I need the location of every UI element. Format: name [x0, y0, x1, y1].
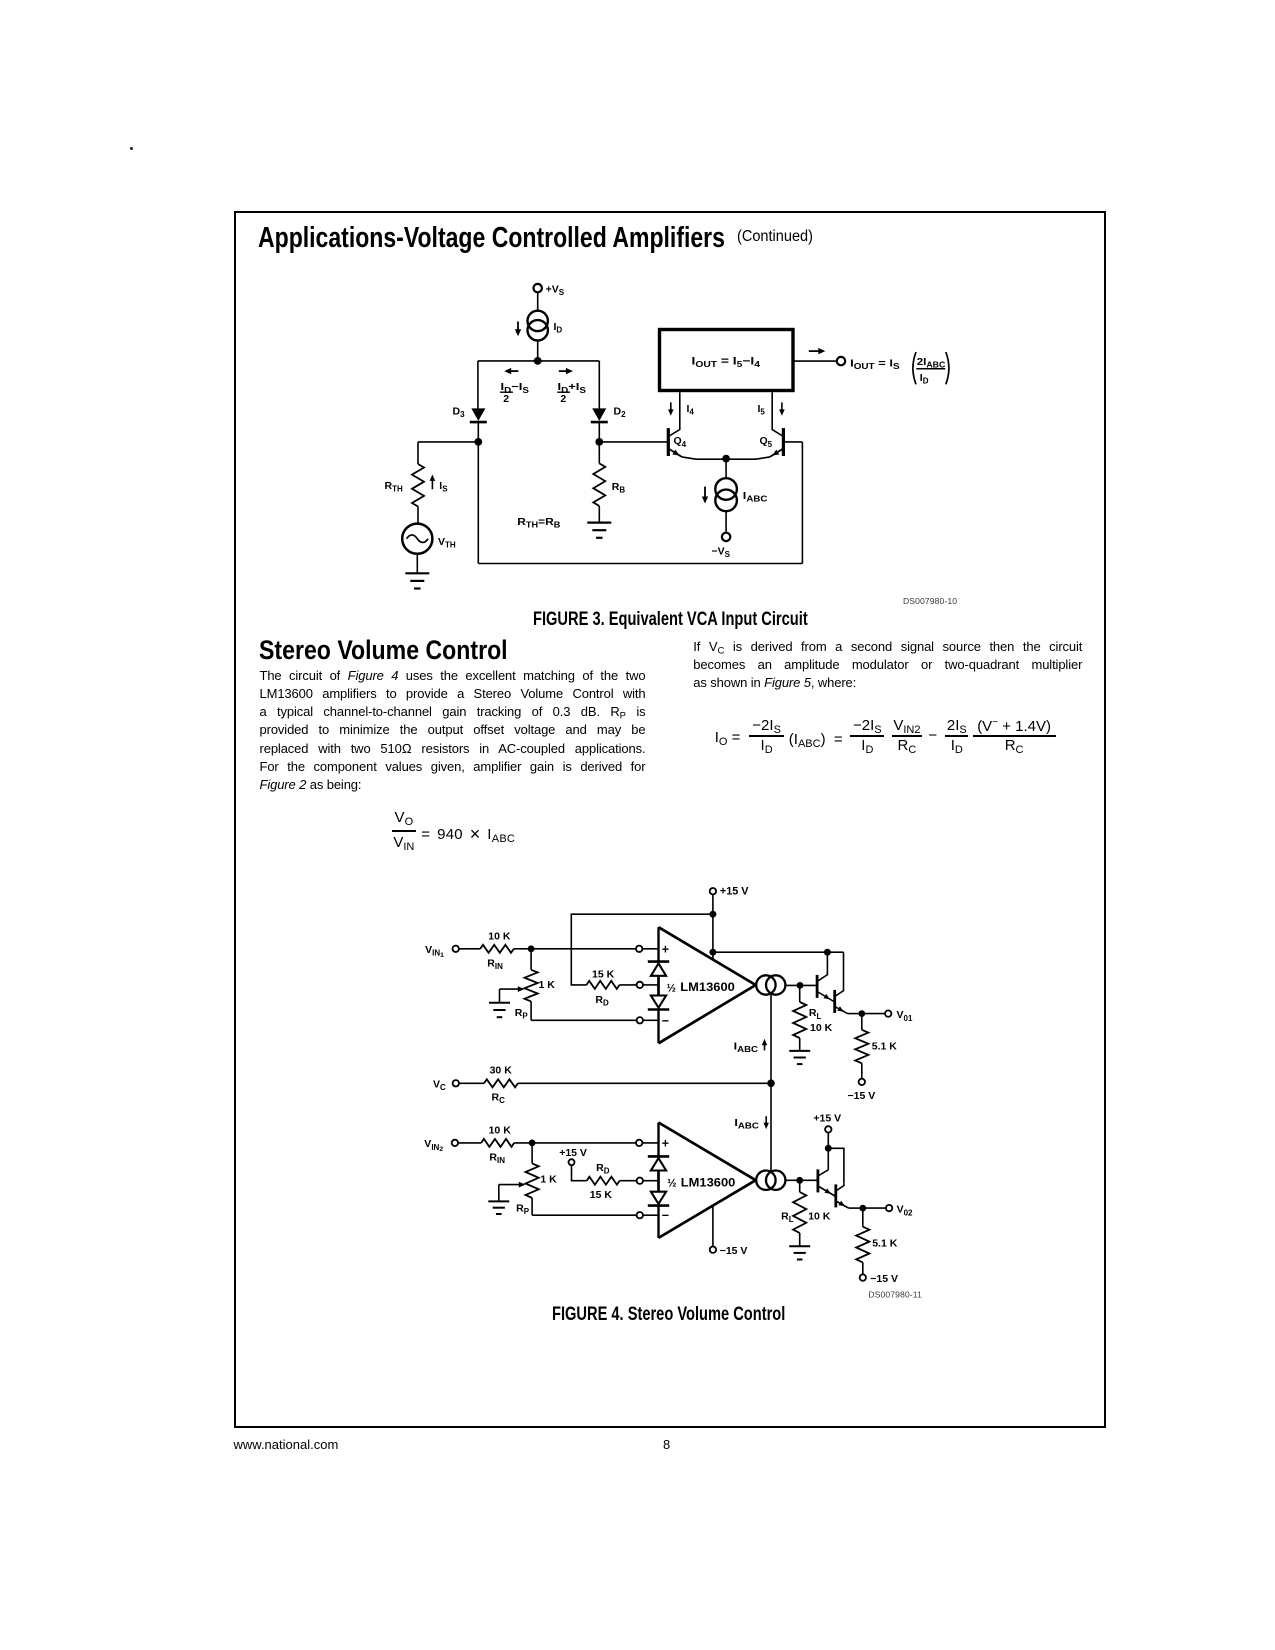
wire +15V down ch2 [827, 1133, 829, 1170]
svg-text:VTH: VTH [438, 536, 456, 550]
svg-text:Q4: Q4 [674, 435, 687, 449]
label 10 K (RL ch2) [808, 1211, 831, 1223]
output block IOUT = I5-I4 [660, 330, 794, 391]
wire ID to node [537, 341, 539, 361]
terminal - input A1 [637, 1017, 643, 1023]
wire node A to RTH [418, 442, 478, 464]
label V01 [897, 1009, 913, 1023]
wire diode mid node [657, 976, 660, 996]
wire rail to RD [571, 914, 713, 985]
label ID [554, 321, 563, 335]
label RD ch2 [596, 1162, 610, 1176]
wire block output [793, 360, 837, 362]
wire rail down to Q2 collector [843, 952, 845, 988]
wire diode mid node ch2 [657, 1171, 660, 1192]
diode D2b (linearizing) [648, 1192, 669, 1206]
label + input A1 [662, 942, 669, 956]
diode D1a (linearizing) [648, 962, 669, 976]
ground (RL ch2) [789, 1246, 810, 1259]
wire A2 output to Q3 base [785, 1179, 818, 1181]
label RTH [385, 480, 403, 494]
label RIN ch2 [489, 1152, 505, 1166]
terminal -15V ch1 [859, 1079, 865, 1085]
svg-text:5.1 K: 5.1 K [872, 1040, 898, 1052]
node A2 output [796, 1177, 803, 1184]
resistor RIN (10 K) channel 2 [481, 1139, 514, 1147]
terminal VC [453, 1080, 459, 1086]
node A1 output [797, 982, 804, 989]
label 15 K (RD ch1) [592, 969, 615, 981]
arrow right branch current [559, 368, 573, 374]
node C (emitters) [722, 455, 730, 463]
svg-text:RIN: RIN [489, 1152, 505, 1166]
wire to V01 terminal [862, 1013, 885, 1015]
wire + input to amp A2 [642, 1142, 658, 1144]
wire - input to amp [643, 1019, 659, 1021]
svg-text:1 K: 1 K [540, 1173, 557, 1185]
wire + input to amp [642, 948, 658, 950]
svg-text:VIN1: VIN1 [425, 944, 444, 959]
wire VIN1 to RIN [459, 948, 480, 950]
svg-text:+VS: +VS [546, 284, 565, 298]
current source ID [528, 311, 548, 341]
terminal diode bias input A1 [637, 982, 643, 988]
label 1/2 LM13600 (A2) [667, 1175, 735, 1189]
svg-text:D3: D3 [453, 405, 466, 419]
label IOUT = IS [850, 357, 900, 371]
resistor RIN (10 K) channel 1 [480, 945, 514, 953]
potentiometer RP (1 K) channel 1 [525, 949, 538, 1021]
terminal VIN1 [453, 946, 459, 952]
label 10 K (RIN ch2) [489, 1125, 512, 1137]
junction +15V ch2 [825, 1145, 832, 1152]
label I4 [687, 403, 695, 417]
svg-text:−: − [662, 1209, 669, 1223]
arrow I5 [779, 402, 785, 415]
source VTH [402, 524, 432, 554]
wire A1 output to Q1 base [785, 984, 817, 986]
label D2 [614, 405, 627, 419]
wire RC to IABC node [518, 1082, 771, 1084]
svg-text:RIN: RIN [487, 957, 503, 971]
svg-text:D2: D2 [614, 405, 627, 419]
label 5.1 K ch1 [872, 1040, 898, 1052]
label IABC ch1 [734, 1040, 759, 1054]
op-amp A2 (1/2 LM13600) [659, 1123, 756, 1238]
parenthesis left [913, 352, 916, 384]
terminal V02 [886, 1205, 892, 1211]
ground (RP wiper ch2) [488, 1201, 509, 1214]
wire 5.1K to -15V ch2 [862, 1262, 864, 1274]
svg-text:RTH=RB: RTH=RB [517, 516, 560, 530]
svg-text:I5: I5 [758, 403, 766, 417]
arrow I4 [668, 402, 674, 415]
wire bottom rail [478, 563, 802, 565]
diode D2 [591, 408, 608, 442]
ground (RL ch1) [789, 1051, 810, 1064]
FIGURE 4 schematic [420, 882, 922, 1302]
wire IABC channel 1 [770, 995, 772, 1084]
svg-text:V01: V01 [897, 1009, 913, 1023]
label + input A2 [662, 1136, 669, 1150]
wiper arrow RP ch2 [499, 1182, 526, 1202]
terminal + input A2 [636, 1140, 642, 1146]
wire RIN to + input ch2 [514, 1142, 636, 1144]
resistor RD (15 K) channel 1 [587, 981, 620, 989]
svg-text:15 K: 15 K [590, 1189, 613, 1201]
svg-text:+15 V: +15 V [720, 886, 749, 898]
label 1 K (RP ch1) [539, 979, 556, 991]
arrow output current [809, 348, 826, 354]
wiper arrow RP ch1 [500, 986, 525, 1003]
svg-text:30 K: 30 K [490, 1065, 513, 1077]
wire RD to bias input ch2 [620, 1180, 637, 1182]
wire node A down [477, 442, 479, 564]
resistor 5.1 K channel 2 [856, 1227, 869, 1263]
wire to V02 terminal [863, 1207, 886, 1209]
wire -15V supply pin A2 [712, 1205, 714, 1246]
label D3 [453, 405, 466, 419]
label (ID-IS)/2 [500, 381, 530, 405]
section title [258, 222, 846, 252]
label VTH [438, 536, 456, 550]
resistor RL (10 K) channel 1 [793, 1002, 806, 1038]
wire - input to amp A2 [643, 1214, 659, 1216]
terminal + input A1 [636, 946, 642, 952]
terminal V01 [885, 1010, 891, 1016]
label RP ch2 [516, 1202, 530, 1216]
wire bias to diodes ch2 [643, 1180, 659, 1182]
label RC [492, 1091, 506, 1105]
label IS [439, 480, 448, 494]
node B (D2 cathode) [595, 438, 603, 446]
svg-text:IOUT = I5−I4: IOUT = I5−I4 [692, 356, 761, 370]
wire IABC channel 2 [770, 1083, 772, 1171]
output current source symbol A2 [756, 1171, 785, 1190]
svg-text:I4: I4 [687, 403, 695, 417]
terminal VIN2 [452, 1140, 458, 1146]
label 5.1 K ch2 [872, 1237, 898, 1249]
terminal -VS [722, 533, 730, 541]
transistor Q2 (buffer ch1) [835, 988, 859, 1014]
left equation VO/VIN = 940 x IABC [392, 809, 417, 826]
wire bias input to diodes [643, 984, 659, 986]
label RTH=RB [517, 516, 560, 530]
svg-text:½: ½ [667, 982, 676, 994]
svg-text:½: ½ [667, 1178, 676, 1190]
label +15V (RD ch2) [559, 1147, 587, 1159]
node V01 [858, 1010, 865, 1017]
potentiometer RP (1 K) channel 2 [526, 1143, 539, 1215]
arrow IABC down [764, 1116, 769, 1129]
diode D1b (linearizing) [648, 996, 669, 1010]
ground (RB) [587, 523, 611, 538]
wire V01 node to 5.1K [861, 1014, 863, 1030]
FIGURE 3 schematic [380, 276, 980, 612]
svg-text:ID: ID [554, 321, 563, 335]
terminal - input A2 [637, 1212, 643, 1218]
terminal +15V (top) [710, 886, 750, 898]
terminal -15V ch2 [860, 1274, 866, 1280]
heading Stereo Volume Control [259, 635, 550, 666]
wire RP to - input ch2 [532, 1214, 637, 1216]
svg-text:IABC: IABC [734, 1040, 759, 1054]
label RP ch1 [515, 1007, 529, 1021]
svg-text:RD: RD [596, 1162, 610, 1176]
label IABC ch2 [734, 1117, 759, 1131]
label Q4 [674, 435, 687, 449]
svg-text:10 K: 10 K [808, 1211, 831, 1223]
svg-text:+: + [662, 1136, 669, 1150]
svg-text:LM13600: LM13600 [681, 1175, 736, 1189]
label I5 [758, 403, 766, 417]
svg-text:Q5: Q5 [760, 435, 773, 449]
wire Q4 collector [668, 392, 680, 436]
footer [234, 1437, 339, 1452]
node V02 [859, 1205, 866, 1212]
wire emitters to IABC [725, 459, 727, 479]
label -15V ch1 [848, 1090, 876, 1102]
wire VTH to ground [416, 554, 418, 574]
transistor Q4 (buffer ch2) [836, 1183, 860, 1208]
resistor RL (10 K) channel 2 [793, 1192, 806, 1233]
wire RP to - input [531, 1019, 637, 1021]
arrow IS [430, 475, 436, 490]
junction Q1 collector [824, 949, 831, 956]
left column paragraph [260, 667, 646, 795]
svg-text:15 K: 15 K [592, 969, 615, 981]
label IABC [743, 490, 768, 504]
svg-text:RP: RP [516, 1202, 530, 1216]
wire +15V to RD ch2 [572, 1165, 587, 1180]
wire top rail [478, 360, 599, 362]
terminal +15V ch2 buffers [825, 1126, 831, 1132]
wire Q4 base [599, 441, 667, 443]
svg-text:RC: RC [492, 1091, 506, 1105]
wire output rail A1 [713, 951, 844, 953]
svg-text:LM13600: LM13600 [680, 980, 735, 994]
svg-text:RL: RL [809, 1007, 822, 1021]
diode D3 [470, 408, 487, 442]
svg-text:−15 V: −15 V [848, 1090, 876, 1102]
svg-text:−15 V: −15 V [870, 1273, 898, 1285]
svg-text:2: 2 [503, 393, 509, 405]
resistor 5.1 K channel 1 [855, 1030, 868, 1064]
svg-text:IOUT = IS: IOUT = IS [850, 357, 900, 371]
svg-text:RB: RB [612, 481, 626, 495]
svg-text:−: − [662, 1014, 669, 1028]
right equation IO = -2IS/ID (IABC) = ... [715, 729, 741, 746]
label DS007980-10 [903, 596, 957, 606]
label Q5 [760, 435, 773, 449]
wire node to RL ch1 [799, 985, 801, 1002]
label 1/2 LM13600 (A1) [667, 980, 735, 994]
wire RL to ground ch1 [799, 1038, 801, 1051]
label - input A2 [662, 1209, 669, 1223]
label 2IABC/ID fraction [916, 356, 945, 385]
label 30 K (RC) [490, 1065, 513, 1077]
svg-text:ID: ID [920, 372, 929, 386]
svg-text:IABC: IABC [743, 490, 768, 504]
transistor Q4 [668, 428, 726, 459]
wire RIN to + input [514, 948, 636, 950]
label RIN ch1 [487, 957, 503, 971]
label VC [433, 1079, 446, 1093]
svg-text:RD: RD [595, 994, 609, 1008]
terminal +VS [534, 284, 565, 298]
svg-text:RL: RL [781, 1211, 794, 1225]
wire Q5 collector [772, 392, 783, 436]
svg-text:DS007980-10: DS007980-10 [903, 596, 957, 606]
node A (D3 cathode) [474, 438, 482, 446]
transistor Q3 (buffer ch2) [818, 1169, 836, 1196]
svg-text:VC: VC [433, 1079, 446, 1093]
wire +VS to ID source [537, 292, 539, 311]
svg-text:10 K: 10 K [488, 930, 511, 942]
svg-text:−15 V: −15 V [720, 1245, 748, 1257]
wire VC to RC [459, 1082, 484, 1084]
label 15 K (RD ch2) [590, 1189, 613, 1201]
op-amp A1 (1/2 LM13600) [659, 927, 756, 1043]
svg-text:−VS: −VS [712, 545, 731, 559]
wire RTH to VTH [417, 507, 419, 524]
transistor Q5 [726, 428, 783, 459]
stray scan dot [130, 147, 133, 150]
svg-text:VIN2: VIN2 [424, 1138, 443, 1153]
label 10 K (RIN ch1) [488, 930, 511, 942]
wire node B to RB [598, 442, 600, 464]
label DS007980-11 [868, 1289, 922, 1299]
resistor RTH [412, 464, 424, 507]
ground (RP wiper ch1) [489, 1003, 510, 1017]
resistor RD (15 K) channel 2 [587, 1177, 620, 1185]
terminal +15V RD ch2 [569, 1159, 575, 1165]
svg-text:2IABC: 2IABC [917, 356, 946, 370]
page frame box [234, 211, 1106, 1428]
svg-text:RP: RP [515, 1007, 529, 1021]
arrow IABC up [762, 1039, 767, 1051]
node VIN2/RP [529, 1140, 536, 1147]
label RL ch2 [781, 1211, 794, 1225]
svg-text:+15 V: +15 V [813, 1112, 841, 1124]
junction +15V/RD rail [709, 911, 716, 918]
wire left drop to D3 [477, 361, 479, 409]
svg-text:V02: V02 [897, 1204, 913, 1218]
wire node to RL ch2 [799, 1180, 801, 1192]
wire IABC to -VS [725, 511, 727, 533]
resistor RC (30 K) [484, 1079, 518, 1087]
label +15V ch2 buffers [813, 1112, 841, 1124]
svg-text:1 K: 1 K [539, 979, 556, 991]
diode D2a (linearizing) [648, 1156, 669, 1170]
svg-text:IS: IS [439, 480, 448, 494]
wire 5.1K to -15V ch1 [861, 1063, 863, 1078]
node VIN1/RP [528, 945, 535, 952]
wire V02 node to 5.1K ch2 [862, 1208, 864, 1227]
resistor RB [593, 463, 605, 506]
label -15V A2 [720, 1245, 748, 1257]
terminal IOUT [837, 357, 845, 365]
terminal -15V (A2 pin) [710, 1247, 716, 1253]
junction top rail node [534, 357, 542, 365]
wire RB to ground [598, 506, 600, 523]
label VIN2 [424, 1138, 443, 1153]
label - input A1 [662, 1014, 669, 1028]
label -15V ch2 [870, 1273, 898, 1285]
output current source symbol A1 [756, 975, 785, 994]
svg-text:RTH: RTH [385, 480, 403, 494]
label V02 [897, 1204, 913, 1218]
svg-text:IABC: IABC [734, 1117, 759, 1131]
svg-text:10 K: 10 K [810, 1022, 833, 1034]
arrow left branch current [504, 368, 518, 374]
wire Q5 base [783, 441, 802, 443]
svg-text:+15 V: +15 V [559, 1147, 587, 1159]
wire +15V down to amp A1 supply pin [712, 894, 714, 959]
arrow IABC direction [702, 487, 708, 504]
svg-text:+: + [662, 942, 669, 956]
svg-text:DS007980-11: DS007980-11 [868, 1289, 922, 1299]
current source IABC [715, 478, 737, 511]
wire right riser to Q5 base [801, 442, 803, 564]
svg-text:10 K: 10 K [489, 1125, 512, 1137]
transistor Q1 (buffer ch1) [817, 952, 835, 1002]
svg-text:2: 2 [560, 393, 566, 405]
terminal diode bias input A2 [637, 1178, 643, 1184]
label RD ch1 [595, 994, 609, 1008]
wire RL to ground ch2 [799, 1233, 801, 1246]
label 10 K (RL ch1) [810, 1022, 833, 1034]
label RB [612, 481, 626, 495]
right column paragraph [693, 638, 1082, 693]
wire VIN2 to RIN [458, 1142, 481, 1144]
label -VS [712, 545, 731, 559]
ground (VTH) [405, 573, 429, 588]
label VIN1 [425, 944, 444, 959]
caption FIGURE 4 [552, 1304, 855, 1326]
wire right drop to D2 [598, 361, 600, 409]
wire RD to bias input [620, 984, 637, 986]
arrow ID current direction [515, 322, 521, 337]
junction supply/output rail A1 [709, 949, 716, 956]
label 1 K (RP ch2) [540, 1173, 557, 1185]
parenthesis right [946, 352, 949, 384]
label (ID+IS)/2 [557, 381, 587, 405]
svg-text:5.1 K: 5.1 K [872, 1237, 898, 1249]
caption FIGURE 3 [533, 609, 889, 631]
wire rail ch2 [828, 1148, 844, 1183]
label RL ch1 [809, 1007, 822, 1021]
node IABC split [767, 1080, 775, 1088]
